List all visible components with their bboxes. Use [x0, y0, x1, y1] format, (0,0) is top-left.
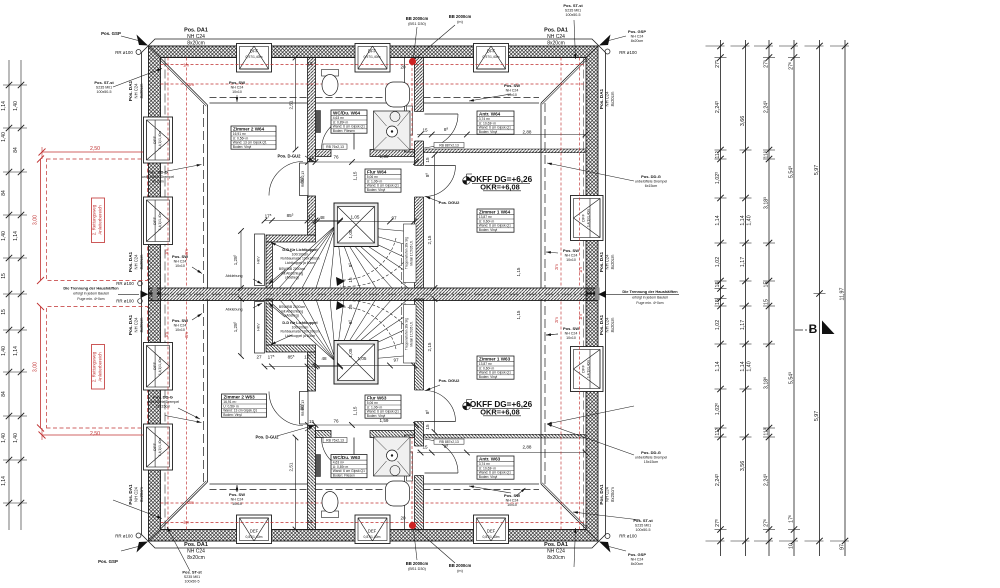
svg-text:Pos. DA1: Pos. DA1 [128, 484, 133, 505]
svg-text:15: 15 [307, 61, 313, 66]
svg-text:WC/Du. W64: WC/Du. W64 [333, 110, 360, 115]
leader DD-G bottom-left [178, 408, 200, 419]
svg-text:Wand: 6 cm Gipsk.Q1: Wand: 6 cm Gipsk.Q1 [479, 126, 511, 130]
svg-text:1,4(1)/1,40m: 1,4(1)/1,40m [587, 360, 591, 378]
svg-text:1,40: 1,40 [1, 132, 7, 142]
svg-text:Abklebung: Abklebung [226, 274, 243, 278]
svg-text:1m: 1m [183, 63, 189, 68]
leader DGU2 right [426, 197, 441, 203]
knee wall line top solid [210, 102, 308, 104]
svg-text:NH C24: NH C24 [231, 85, 244, 89]
middle separating wall [149, 288, 599, 301]
svg-text:100x50-5: 100x50-5 [636, 528, 651, 532]
svg-text:10x10: 10x10 [507, 93, 517, 97]
svg-text:Wand: 6 cm Gipsk.Q1: Wand: 6 cm Gipsk.Q1 [333, 469, 365, 473]
svg-text:Pos. GSP: Pos. GSP [628, 29, 646, 34]
room label box Flur W63 [365, 395, 401, 418]
svg-text:(m): (m) [457, 20, 463, 24]
svg-text:1,05: 1,05 [358, 356, 367, 361]
party joint marker left [153, 288, 157, 301]
svg-text:NH C24: NH C24 [134, 486, 139, 502]
red 1m line left [167, 58, 169, 289]
svg-text:NH C24: NH C24 [134, 317, 139, 333]
toilet bowl [322, 75, 338, 96]
svg-text:NH C24: NH C24 [187, 549, 205, 555]
door swing arc WC/Du [322, 117, 355, 150]
svg-text:1,15: 1,15 [516, 310, 521, 319]
leader Abklebung [253, 279, 262, 284]
svg-text:BB 2000cm: BB 2000cm [406, 16, 429, 21]
svg-text:15: 15 [764, 282, 770, 288]
svg-text:U: 0,60² m: U: 0,60² m [479, 219, 495, 223]
svg-text:4,63 m²: 4,63 m² [333, 116, 345, 120]
leader BSW [269, 270, 286, 284]
svg-text:RR ø100: RR ø100 [619, 534, 637, 539]
svg-text:NH C24: NH C24 [506, 498, 519, 502]
svg-text:15: 15 [422, 128, 428, 133]
svg-text:Boden: Vinyl: Boden: Vinyl [479, 475, 498, 479]
svg-text:2m: 2m [184, 332, 189, 338]
partition Antr/Zimmer1 [424, 149, 587, 153]
svg-text:U: 10,63² m: U: 10,63² m [479, 121, 496, 125]
red 2m line top [161, 83, 587, 85]
svg-text:16,91 m²: 16,91 m² [223, 400, 237, 404]
svg-text:Wand: 6 cm Gipsk.Q1: Wand: 6 cm Gipsk.Q1 [333, 125, 365, 129]
svg-text:DFF: DFF [581, 365, 586, 373]
door label RB 76x2,13 [323, 144, 347, 149]
svg-text:2. Rettungsweg: 2. Rettungsweg [92, 204, 97, 235]
svg-text:84: 84 [1, 190, 7, 196]
svg-text:15: 15 [348, 304, 353, 310]
svg-text:100x50-5: 100x50-5 [566, 13, 581, 17]
svg-text:NH C24: NH C24 [547, 34, 565, 40]
red dot top [409, 58, 416, 65]
leader SW top-right [469, 94, 511, 101]
svg-text:1m: 1m [578, 314, 583, 320]
svg-text:5,97: 5,97 [814, 411, 820, 421]
svg-text:Wand: 13 cm Gipsk.Q1: Wand: 13 cm Gipsk.Q1 [223, 409, 257, 413]
red dim 2.50 line [42, 151, 149, 153]
door leaf Antr [425, 113, 459, 115]
red dim 3.00 line [40, 159, 42, 281]
svg-text:DFF: DFF [368, 49, 377, 54]
eaves outline (roof edge) [142, 39, 606, 294]
room label box Antr. W64 [477, 111, 514, 134]
svg-text:Wand: 6 cm Gipsk.Q1: Wand: 6 cm Gipsk.Q1 [367, 410, 399, 414]
HKV distributor box [255, 234, 265, 286]
svg-text:0,87/1,40m: 0,87/1,40m [246, 535, 263, 539]
knee wall line top dashed [316, 97, 405, 99]
Trennung leader left [118, 294, 139, 296]
bath bottom wall right part [370, 150, 415, 157]
svg-text:0,87/1,40m: 0,87/1,40m [483, 535, 500, 539]
room label box Zimmer 2 W64 [231, 126, 276, 149]
svg-text:NH C24: NH C24 [134, 83, 139, 99]
washbasin circle [390, 112, 400, 122]
middle arrow left [141, 291, 149, 299]
svg-text:2. Rettungsweg: 2. Rettungsweg [92, 351, 97, 382]
svg-text:Pos. DD-G: Pos. DD-G [148, 170, 168, 175]
installation shaft wall [404, 58, 406, 153]
leader SW bottom-right [516, 488, 526, 496]
svg-text:1m: 1m [183, 520, 189, 525]
leader DD-G right [547, 163, 634, 181]
svg-text:Zimmer 2 W64: Zimmer 2 W64 [233, 126, 265, 131]
svg-text:Wand: 6 cm Gipsk.Q1: Wand: 6 cm Gipsk.Q1 [479, 224, 511, 228]
svg-text:S235 M01: S235 M01 [565, 9, 581, 13]
svg-text:Pos. ST-st: Pos. ST-st [563, 3, 583, 8]
svg-text:1,40: 1,40 [1, 433, 7, 443]
red dot bottom [409, 522, 416, 529]
svg-text:2,50: 2,50 [90, 431, 100, 437]
roof edge dash right [583, 58, 585, 289]
svg-text:Pos. GSP: Pos. GSP [98, 559, 118, 564]
svg-text:Pos. DA1: Pos. DA1 [599, 484, 604, 505]
svg-text:RR ø100: RR ø100 [116, 299, 134, 304]
svg-text:Pos. DA1: Pos. DA1 [184, 542, 208, 548]
svg-text:Treppenstufen 16x Stg: Treppenstufen 16x Stg [405, 237, 409, 269]
svg-text:2m: 2m [554, 264, 559, 270]
dimension chain x=845 [844, 40, 846, 556]
red 1m line right [579, 58, 581, 289]
svg-text:U: 10,63² m: U: 10,63² m [479, 466, 496, 470]
svg-text:BB 2000cm: BB 2000cm [449, 563, 472, 568]
red 2m line right [560, 58, 562, 289]
RR pipe circle top-left [136, 50, 141, 55]
svg-text:15: 15 [309, 155, 315, 160]
roof window DFF right wall [571, 196, 604, 241]
svg-text:NH C24: NH C24 [565, 331, 578, 335]
svg-text:Wand: 6 cm Gipsk.Q1: Wand: 6 cm Gipsk.Q1 [479, 471, 511, 475]
svg-text:Pos. SW: Pos. SW [563, 248, 579, 253]
svg-text:DEF: DEF [368, 529, 377, 534]
svg-text:DFF: DFF [152, 136, 157, 144]
svg-text:1m: 1m [164, 332, 169, 338]
svg-text:Pos. ST-st: Pos. ST-st [94, 80, 114, 85]
svg-text:S235 M01: S235 M01 [96, 86, 112, 90]
RR pipe circle bottom-left [136, 533, 141, 538]
room label box Antr. W63 [477, 456, 514, 479]
svg-text:15: 15 [715, 299, 721, 305]
svg-text:10x10: 10x10 [566, 336, 576, 340]
svg-text:S235 M01: S235 M01 [184, 575, 200, 579]
dimension chain x=819.5 [819, 40, 821, 556]
roof window DFF top wall [474, 44, 509, 73]
svg-text:76: 76 [333, 419, 339, 424]
door label RB 887x2,13 [434, 143, 464, 148]
GSP arrow top-left [137, 35, 149, 46]
svg-text:WC/Du. W63: WC/Du. W63 [333, 455, 360, 460]
room label box Zimmer 1 W64 [477, 209, 514, 232]
knee wall line top solid [316, 102, 405, 104]
svg-text:1,05: 1,05 [351, 215, 360, 220]
svg-text:Fuge min. 4+0cm: Fuge min. 4+0cm [77, 297, 104, 301]
toilet bowl bottom [322, 492, 338, 513]
stair enclosure wall vertical [266, 242, 273, 288]
svg-text:Pos. DD-G: Pos. DD-G [641, 174, 661, 179]
room label box Flur W64 [365, 169, 401, 192]
svg-text:Metall 17,5/26 Lfl.: Metall 17,5/26 Lfl. [410, 321, 414, 346]
svg-text:1m: 1m [164, 249, 169, 255]
svg-text:Die Trennung der Haushälften: Die Trennung der Haushälften [622, 289, 678, 294]
BB leader 1 [414, 27, 418, 58]
svg-text:(BS1 D30): (BS1 D30) [408, 22, 426, 26]
svg-text:15: 15 [1, 273, 7, 279]
left dimension chain [8, 60, 10, 530]
svg-text:97: 97 [840, 544, 846, 550]
svg-text:1,4(1)/1,40m: 1,4(1)/1,40m [158, 357, 162, 375]
svg-text:84: 84 [13, 147, 19, 153]
svg-text:RR ø100: RR ø100 [115, 50, 133, 55]
svg-text:8x20cm: 8x20cm [610, 317, 615, 332]
roof edge dash left [164, 58, 166, 289]
wall below Zimmer2 door [308, 196, 316, 235]
svg-text:Pos. DA1: Pos. DA1 [544, 542, 568, 548]
roof window DFF top wall [355, 44, 390, 73]
dimension chain x=794 [793, 40, 795, 556]
svg-text:Flur W63: Flur W63 [367, 395, 387, 400]
svg-text:Pos. SW: Pos. SW [229, 492, 245, 497]
svg-text:2m: 2m [188, 500, 194, 505]
room label box WC/Du. W63 [331, 455, 367, 478]
svg-text:BB 2000cm: BB 2000cm [449, 14, 472, 19]
svg-text:Pos. SW: Pos. SW [563, 326, 579, 331]
svg-text:1,02: 1,02 [715, 320, 721, 330]
BB leader 2 [415, 25, 455, 59]
svg-text:NH C24: NH C24 [174, 323, 187, 327]
svg-text:RB 76x2,13: RB 76x2,13 [326, 145, 344, 149]
svg-text:(BS1 D30): (BS1 D30) [408, 567, 426, 571]
svg-text:Pos. GSP: Pos. GSP [101, 31, 121, 36]
svg-text:Pos. SW: Pos. SW [504, 83, 520, 88]
svg-text:NH C24: NH C24 [174, 259, 187, 263]
svg-text:NH C24: NH C24 [605, 486, 610, 502]
svg-text:Antr. W63: Antr. W63 [479, 456, 501, 461]
svg-text:15: 15 [422, 445, 428, 450]
stair tread [336, 225, 415, 232]
svg-text:15: 15 [307, 519, 313, 524]
svg-text:Pos. DD-G: Pos. DD-G [153, 395, 173, 400]
svg-text:8x20cm: 8x20cm [547, 555, 565, 561]
svg-text:U: 0,89² m: U: 0,89² m [333, 465, 349, 469]
svg-text:NH C24: NH C24 [231, 497, 244, 501]
svg-text:Fuge min. 4+0cm: Fuge min. 4+0cm [636, 301, 663, 305]
svg-text:Pos. GSP: Pos. GSP [628, 552, 646, 557]
svg-text:OKR=+6,08: OKR=+6,08 [480, 183, 519, 192]
outer wall band (hatched) [149, 46, 599, 294]
svg-text:1,14: 1,14 [1, 101, 7, 111]
shower drain [387, 126, 398, 137]
svg-text:1,4(1)/1,40m: 1,4(1)/1,40m [587, 209, 591, 227]
svg-text:Anleiterbereich: Anleiterbereich [98, 352, 103, 382]
GSP arrow bottom-right [599, 542, 611, 553]
svg-text:8x20cm: 8x20cm [610, 254, 615, 269]
shower tray [374, 111, 411, 150]
svg-text:2m: 2m [554, 317, 559, 323]
red 1m line top [161, 64, 587, 66]
knee wall line top solid [424, 102, 540, 104]
svg-text:Pos. DA1: Pos. DA1 [599, 251, 604, 272]
room label box WC/Du. W64 [331, 110, 367, 133]
walking line arrow [336, 277, 345, 286]
svg-text:8x20cm: 8x20cm [610, 487, 615, 502]
stair label box rotated [404, 224, 417, 283]
svg-text:100x50-5: 100x50-5 [185, 580, 200, 584]
svg-text:DFF: DFF [487, 49, 496, 54]
GSP arrow top-right [599, 35, 611, 46]
svg-text:0,97/1,40m: 0,97/1,40m [483, 55, 500, 59]
svg-text:11,97: 11,97 [840, 288, 846, 301]
svg-text:10: 10 [789, 543, 795, 549]
svg-text:0,97/1,40m: 0,97/1,40m [246, 55, 263, 59]
svg-text:8x20cm: 8x20cm [139, 254, 144, 269]
hip line top-left [161, 58, 208, 105]
svg-text:1,05: 1,05 [348, 348, 353, 357]
svg-text:100x50-5: 100x50-5 [97, 90, 112, 94]
svg-text:RB 887x2,13: RB 887x2,13 [439, 440, 459, 444]
svg-text:48: 48 [319, 215, 325, 220]
svg-text:HKV: HKV [257, 256, 261, 264]
svg-text:RB 887x2,13: RB 887x2,13 [439, 143, 459, 147]
svg-text:B: B [809, 322, 818, 336]
svg-text:Pos. SW: Pos. SW [229, 80, 245, 85]
svg-text:1,40: 1,40 [13, 433, 19, 443]
level marker OKFF [463, 174, 472, 184]
svg-text:U: 1,06² m: U: 1,06² m [367, 179, 383, 183]
svg-text:1,15: 1,15 [353, 171, 358, 180]
svg-text:15x15cm: 15x15cm [156, 404, 171, 408]
svg-text:Zimmer 1 W64: Zimmer 1 W64 [479, 209, 511, 214]
svg-text:1,17: 1,17 [740, 320, 746, 330]
svg-text:13,87 m²: 13,87 m² [479, 362, 493, 366]
skylight inner box [338, 207, 375, 244]
svg-text:8x20cm: 8x20cm [610, 91, 615, 106]
svg-text:Wand: 6 cm Gipsk.Q1: Wand: 6 cm Gipsk.Q1 [367, 184, 399, 188]
svg-text:10x10: 10x10 [175, 328, 185, 332]
svg-text:DFF: DFF [250, 49, 259, 54]
svg-text:3,66: 3,66 [740, 116, 746, 126]
svg-text:2,88: 2,88 [523, 130, 532, 135]
svg-text:10x10: 10x10 [232, 90, 242, 94]
svg-text:20: 20 [400, 65, 406, 70]
svg-text:unbelüftete Drempel: unbelüftete Drempel [635, 455, 668, 459]
svg-text:DFF: DFF [581, 214, 586, 222]
svg-text:97: 97 [391, 216, 397, 221]
svg-text:RR ø100: RR ø100 [619, 50, 637, 55]
washbasin top [386, 82, 410, 107]
svg-text:unbelüftete Drempel: unbelüftete Drempel [147, 400, 180, 404]
stair flight line [401, 244, 403, 288]
svg-text:15x15cm: 15x15cm [644, 460, 659, 464]
svg-text:8x20cm: 8x20cm [631, 39, 644, 43]
svg-text:NH C24: NH C24 [547, 549, 565, 555]
svg-text:1,02: 1,02 [715, 257, 721, 267]
svg-text:Flur W64: Flur W64 [367, 169, 387, 174]
svg-text:76: 76 [333, 155, 339, 160]
shaft duct [407, 106, 413, 135]
knee wall line right solid [540, 103, 542, 288]
towel radiator [316, 111, 321, 133]
door opening party wall 2 [414, 166, 424, 198]
svg-text:1,14: 1,14 [1, 476, 7, 486]
svg-text:Die Trennung der Haushälften: Die Trennung der Haushälften [63, 286, 119, 291]
svg-text:OKR=+6,08: OKR=+6,08 [480, 408, 519, 417]
svg-text:DEF: DEF [487, 529, 496, 534]
svg-text:2m: 2m [184, 249, 189, 255]
party wall [415, 58, 424, 289]
leader D-GU2 bottom [277, 426, 314, 437]
svg-text:Boden: Vinyl: Boden: Vinyl [479, 130, 498, 134]
svg-text:NH C24: NH C24 [605, 254, 610, 270]
svg-text:8x20cm: 8x20cm [139, 487, 144, 502]
svg-text:10x10: 10x10 [566, 258, 576, 262]
stair walking line [340, 250, 413, 286]
svg-text:1,40: 1,40 [13, 101, 19, 111]
svg-text:Pos. D-GU2: Pos. D-GU2 [255, 435, 279, 440]
svg-text:Pos. DGU2: Pos. DGU2 [439, 200, 460, 205]
svg-text:1,4(1)/1,40m: 1,4(1)/1,40m [158, 131, 162, 149]
svg-text:NH C24: NH C24 [631, 558, 644, 562]
door opening in party wall [414, 112, 424, 142]
svg-text:NH C24: NH C24 [506, 88, 519, 92]
svg-text:DEF: DEF [250, 529, 259, 534]
svg-text:(m): (m) [457, 569, 463, 573]
svg-text:Pos. D-GU2: Pos. D-GU2 [277, 154, 301, 159]
leader ST-st bottom-left [167, 527, 190, 571]
wall WC/Du left [308, 58, 316, 162]
middle arrow right [598, 291, 606, 299]
svg-text:1,14: 1,14 [13, 346, 19, 356]
RR circle middle-left-top [138, 281, 143, 286]
svg-text:DFF: DFF [152, 443, 157, 451]
svg-text:NH C24: NH C24 [565, 253, 578, 257]
dimension chain x=769 [768, 40, 770, 556]
svg-text:2,15: 2,15 [427, 235, 432, 244]
svg-text:DFF: DFF [152, 217, 157, 225]
party joint marker right [595, 288, 599, 301]
skylight diagonal [338, 207, 375, 244]
svg-text:2,51: 2,51 [289, 100, 294, 109]
svg-text:Zimmer 1 W63: Zimmer 1 W63 [479, 356, 511, 361]
svg-text:Boden: Fliesen: Boden: Fliesen [333, 474, 355, 478]
svg-text:15: 15 [1, 309, 7, 315]
svg-text:unbelüftete Drempel: unbelüftete Drempel [635, 179, 668, 183]
svg-text:Pos. DA1: Pos. DA1 [128, 251, 133, 272]
svg-text:NH C24: NH C24 [605, 317, 610, 333]
svg-text:1,15: 1,15 [353, 406, 358, 415]
svg-text:5,06 m²: 5,06 m² [367, 401, 379, 405]
svg-text:84: 84 [1, 391, 7, 397]
svg-text:U: 0,89² m: U: 0,89² m [333, 120, 349, 124]
svg-text:(Abstieg): (Abstieg) [285, 276, 299, 280]
knee wall line left solid [207, 105, 209, 288]
hip line top-right [541, 58, 586, 103]
door label RB 76x2,13 [323, 438, 347, 443]
rescue area red dashed rect [47, 159, 148, 281]
svg-text:U: 0,56² m: U: 0,56² m [233, 136, 249, 140]
svg-text:Pos. ST-st: Pos. ST-st [182, 570, 202, 575]
svg-text:NH C24: NH C24 [134, 254, 139, 270]
door panel Zimmer2 [300, 163, 309, 196]
svg-text:1,40: 1,40 [747, 361, 753, 371]
room label box Zimmer 2 W63 [222, 394, 267, 417]
leader SW top-left [236, 95, 238, 102]
leader SW right [546, 252, 558, 253]
svg-text:Lichtkuppel ja 60cm: Lichtkuppel ja 60cm [285, 334, 315, 338]
red shaft line [411, 63, 413, 150]
leader DD-G left [165, 165, 202, 172]
svg-text:Wand: 6 cm Gipsk.Q1: Wand: 6 cm Gipsk.Q1 [479, 371, 511, 375]
